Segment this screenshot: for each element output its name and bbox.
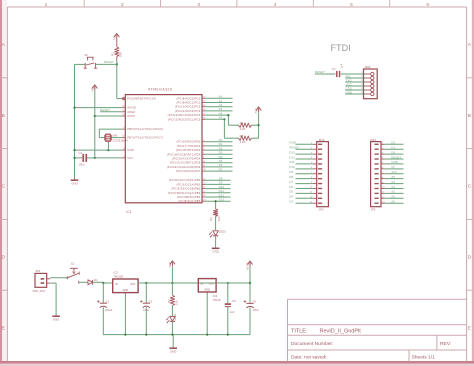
capacitor C2 100n (decoupling) — [73, 151, 94, 166]
JP3 net wires and labels — [385, 141, 404, 204]
capacitor C7 100n (DTR series) — [332, 63, 344, 77]
svg-text:D13: D13 — [219, 198, 225, 202]
svg-text:RESET: RESET — [104, 60, 114, 64]
svg-text:220: 220 — [217, 216, 221, 221]
wire RESET net to IC pin 1 — [116, 61, 123, 99]
svg-text:IN: IN — [200, 282, 203, 286]
svg-text:S1: S1 — [71, 262, 75, 266]
svg-text:+5V: +5V — [112, 35, 116, 40]
LED LED1 (power) — [167, 313, 177, 335]
resistor R4 2.2K (SDA pull-up) — [227, 114, 258, 131]
svg-text:10uF: 10uF — [253, 308, 259, 312]
pushbutton S2 — [75, 53, 117, 68]
switch S1 (power) — [67, 262, 79, 284]
supply +5V arrow (I2C pull-ups) — [254, 107, 261, 114]
svg-text:C: C — [1, 184, 5, 190]
svg-text:78L05Z: 78L05Z — [113, 274, 123, 278]
wire jack pin2 to ground — [50, 283, 56, 316]
svg-text:R1: R1 — [111, 52, 115, 56]
svg-text:AREF: AREF — [127, 110, 135, 114]
wire 3.3V out — [216, 282, 250, 284]
svg-text:(PCI19/OC2B/INT1)PD3: (PCI19/OC2B/INT1)PD3 — [167, 152, 201, 156]
svg-text:Document Number:: Document Number: — [291, 341, 333, 347]
svg-text:ATMEGA328: ATMEGA328 — [148, 88, 172, 92]
svg-text:(PCI21/OC0B/T1)PD5: (PCI21/OC0B/T1)PD5 — [170, 161, 201, 165]
ground symbol GND (power rail) — [169, 348, 177, 353]
svg-text:3V3: 3V3 — [391, 170, 397, 174]
ground symbol GND (button / analog gnd) — [71, 180, 79, 185]
svg-text:LED1: LED1 — [173, 313, 177, 320]
svg-text:IC1: IC1 — [126, 210, 131, 214]
svg-text:D1: D1 — [391, 146, 395, 150]
svg-text:+5V: +5V — [168, 262, 172, 267]
ground symbol GND (power jack) — [52, 316, 60, 321]
svg-text:R2: R2 — [167, 299, 171, 303]
svg-text:RevID_II_GndPlt: RevID_II_GndPlt — [320, 329, 362, 335]
svg-text:6: 6 — [426, 2, 429, 8]
svg-text:FTDI: FTDI — [331, 43, 351, 53]
svg-text:IN: IN — [115, 282, 118, 286]
svg-text:JP3: JP3 — [370, 207, 375, 211]
wire ground rail — [103, 334, 250, 336]
connector JP3 M13 (analog/power header) — [370, 138, 385, 211]
svg-text:(PCI16/RXD)PD0: (PCI16/RXD)PD0 — [177, 140, 201, 144]
connector JP4 power jack — [33, 269, 51, 293]
svg-text:JP2: JP2 — [319, 207, 324, 211]
svg-text:Date: not saved!: Date: not saved! — [291, 355, 327, 361]
svg-text:D9: D9 — [289, 170, 293, 174]
svg-text:10K: 10K — [119, 52, 123, 57]
svg-text:D: D — [1, 255, 5, 261]
IC1 right pins PC0-PC5 with nets A0-A5 — [168, 95, 233, 122]
svg-text:A5: A5 — [391, 175, 395, 179]
voltage regulator IC3 78L33 — [198, 279, 221, 302]
svg-text:D3: D3 — [289, 199, 293, 203]
svg-text:D7: D7 — [289, 180, 293, 184]
svg-text:GND: GND — [212, 250, 218, 254]
ground symbol GND (LED2) — [212, 248, 220, 253]
svg-text:B: B — [2, 113, 5, 119]
FTDI net stub wires RXI TXO VCC CTS GND — [345, 74, 363, 94]
svg-text:RESET: RESET — [289, 146, 299, 150]
svg-text:(PCI18/INT0)PD2: (PCI18/INT0)PD2 — [176, 148, 201, 152]
svg-text:(PCI3/MOSI/OC2A)PB3: (PCI3/MOSI/OC2A)PB3 — [168, 191, 201, 195]
supply +3.3V arrow — [246, 261, 253, 283]
wire IC2 gnd to ground rail — [124, 294, 126, 334]
wire switch to diode D1 — [79, 281, 88, 283]
svg-text:(PCI5/SCK)PB5: (PCI5/SCK)PB5 — [179, 199, 201, 203]
svg-text:A5: A5 — [219, 116, 223, 120]
wire IC3 gnd to ground rail — [206, 294, 208, 335]
svg-text:A0: A0 — [391, 199, 395, 203]
wire rail to ground symbol — [172, 335, 174, 348]
wire button to GND rail — [74, 64, 76, 179]
svg-text:A3: A3 — [391, 185, 395, 189]
svg-text:+3.3V: +3.3V — [246, 262, 250, 270]
svg-text:C5: C5 — [232, 299, 236, 303]
wire GND to IC gnd pin — [73, 149, 122, 151]
wire VCC — [95, 157, 123, 159]
svg-text:RESET: RESET — [391, 155, 401, 159]
svg-text:(PCI22/OC0A/AIN0)PD6: (PCI22/OC0A/AIN0)PD6 — [167, 165, 201, 169]
svg-text:GND: GND — [170, 349, 176, 353]
svg-text:C2: C2 — [78, 151, 82, 155]
svg-text:GND: GND — [289, 141, 297, 145]
wire resistor to LED2 — [215, 216, 217, 230]
svg-text:A2: A2 — [391, 190, 395, 194]
resistor R1 10K — [111, 39, 123, 61]
capacitor C1 100uF (input) — [97, 283, 113, 335]
capacitor C2b 10uF (5V out) — [140, 283, 153, 335]
svg-text:AGND: AGND — [127, 106, 136, 110]
IC1 right pins PD0-PD7 with nets D0-D7 — [167, 138, 233, 173]
supply +5V arrow (AVCC/VCC) — [90, 85, 97, 92]
svg-text:OUT: OUT — [209, 282, 215, 286]
LED LED2 — [210, 229, 227, 237]
svg-text:(PCI8/ADC0)PC0: (PCI8/ADC0)PC0 — [177, 96, 201, 100]
IC1 right pins PB0-PB5 with nets D8-D13 — [168, 177, 231, 204]
svg-text:REV:: REV: — [440, 341, 451, 347]
svg-text:D13: D13 — [289, 150, 295, 154]
svg-text:C: C — [468, 184, 472, 190]
svg-text:4: 4 — [274, 2, 277, 8]
svg-text:CSTCE16M0V: CSTCE16M0V — [112, 140, 128, 143]
resistor R5 2.2K (SCL pull-up) — [223, 118, 258, 144]
svg-text:C7: C7 — [332, 67, 336, 71]
svg-text:AVCC: AVCC — [127, 114, 135, 118]
svg-text:B: B — [468, 113, 471, 119]
svg-text:(PCI23/AIN1)PD7: (PCI23/AIN1)PD7 — [176, 169, 201, 173]
svg-text:JP4: JP4 — [35, 269, 40, 273]
svg-text:D8: D8 — [289, 175, 293, 179]
svg-text:GND: GND — [346, 90, 354, 94]
wire RESET to C7 — [315, 73, 336, 75]
svg-text:VCC: VCC — [127, 156, 133, 160]
svg-text:D12: D12 — [289, 155, 295, 159]
svg-text:LED2: LED2 — [219, 229, 226, 233]
svg-text:1: 1 — [45, 2, 48, 8]
svg-text:A1: A1 — [391, 195, 395, 199]
wire D1 to regulator input (VIN node) — [93, 282, 113, 284]
svg-text:(PCI2/SS/OC1B)PB2: (PCI2/SS/OC1B)PB2 — [172, 187, 201, 191]
svg-text:Sheets 1/1: Sheets 1/1 — [412, 355, 436, 361]
svg-text:GND: GND — [123, 288, 129, 292]
svg-text:2: 2 — [121, 2, 124, 8]
svg-text:(PCI1/OC1A)PB1: (PCI1/OC1A)PB1 — [177, 182, 201, 186]
svg-text:D2: D2 — [391, 141, 395, 145]
wire AGND to gnd column — [73, 107, 122, 109]
svg-text:D1: D1 — [94, 278, 98, 282]
resistor R2 330 (power LED) — [167, 283, 178, 316]
capacitor C5 .1uF — [225, 283, 236, 335]
svg-text:C2: C2 — [149, 299, 153, 303]
svg-text:PC6(/RESET/PCI14): PC6(/RESET/PCI14) — [127, 97, 156, 101]
svg-text:2.2K: 2.2K — [240, 140, 246, 144]
svg-text:5: 5 — [350, 2, 353, 8]
IC1 left pins (stubs, numbers, names) — [122, 97, 163, 160]
svg-text:(PCI4/MISO)PB4: (PCI4/MISO)PB4 — [177, 195, 201, 199]
svg-text:C1: C1 — [106, 299, 110, 303]
svg-text:5V: 5V — [391, 165, 395, 169]
capacitor C6 10uF (3.3V out) — [244, 282, 259, 335]
svg-text:D0: D0 — [391, 150, 395, 154]
svg-text:GND: GND — [204, 288, 210, 292]
svg-text:D4: D4 — [289, 195, 293, 199]
wire +5V to pull-ups — [258, 112, 260, 138]
svg-text:3: 3 — [197, 2, 200, 8]
svg-text:GND: GND — [391, 160, 399, 164]
svg-text:D5: D5 — [289, 190, 293, 194]
resonator Q1 16MHz CSTCE16M — [99, 129, 128, 150]
svg-text:+5V: +5V — [90, 86, 94, 91]
svg-text:R3: R3 — [209, 217, 213, 221]
wire LED2 to ground — [215, 236, 217, 249]
wire +5V rail (IC2 out) — [138, 282, 250, 284]
wire jack pin1 to switch S1 — [50, 277, 67, 279]
voltage regulator IC2 78L05Z — [113, 271, 138, 295]
svg-text:D11: D11 — [289, 160, 295, 164]
svg-text:(PCI9/ADC1)PC1: (PCI9/ADC1)PC1 — [177, 101, 201, 105]
wire AREF — [100, 111, 122, 113]
svg-text:E: E — [2, 325, 5, 331]
svg-text:16M: 16M — [112, 134, 117, 137]
svg-text:78L33: 78L33 — [213, 298, 221, 302]
svg-text:D10: D10 — [289, 165, 295, 169]
svg-text:100uF: 100uF — [105, 308, 113, 312]
diode D1 — [88, 278, 98, 285]
svg-text:A4: A4 — [391, 180, 395, 184]
supply +5V arrow (rail) — [168, 261, 175, 283]
wire C7 to FTDI pin 1 — [341, 73, 364, 75]
svg-text:E: E — [468, 325, 471, 331]
svg-text:2.2K: 2.2K — [240, 127, 246, 131]
svg-text:C6: C6 — [252, 300, 256, 304]
svg-text:+5V: +5V — [254, 108, 258, 113]
IC IC1 ATMEGA328 (microcontroller) — [125, 88, 202, 214]
supply +5V arrow (reset pull-up) — [112, 34, 119, 41]
svg-text:.1uF: .1uF — [340, 63, 344, 69]
svg-text:D: D — [468, 255, 472, 261]
svg-text:GND: GND — [53, 317, 59, 321]
svg-text:(PCI11/ADC3)PC3: (PCI11/ADC3)PC3 — [175, 109, 201, 113]
wire +5V to AVCC and VCC pins — [94, 90, 96, 159]
svg-text:.1uF: .1uF — [229, 310, 235, 314]
svg-text:(PCI10/ADC2)PC2: (PCI10/ADC2)PC2 — [175, 105, 201, 109]
svg-text:D7: D7 — [219, 167, 223, 171]
svg-text:TITLE:: TITLE: — [291, 329, 308, 335]
svg-text:(PCI20/XCK/T0)PD4: (PCI20/XCK/T0)PD4 — [172, 157, 201, 161]
JP2 net wires and labels — [289, 141, 313, 204]
svg-text:PB6(XTAL1/TOSC1/PCI6): PB6(XTAL1/TOSC1/PCI6) — [127, 127, 163, 131]
svg-text:(PCI17/TXD)PD1: (PCI17/TXD)PD1 — [177, 144, 201, 148]
svg-text:(PCI13/ADC5/SCL)PC5: (PCI13/ADC5/SCL)PC5 — [168, 117, 201, 121]
svg-text:100n: 100n — [78, 163, 84, 167]
connector JP2 M13 (digital header) — [310, 138, 329, 211]
svg-text:(PCI12/ADC4/SDA)PC4: (PCI12/ADC4/SDA)PC4 — [168, 113, 201, 117]
svg-text:D6: D6 — [289, 185, 293, 189]
connector JP1 FTDI M06 — [361, 65, 377, 99]
svg-text:330: 330 — [174, 300, 178, 305]
svg-text:PB7(XTAL2/TOSC2/PCI7): PB7(XTAL2/TOSC2/PCI7) — [127, 136, 163, 140]
wire AVCC — [95, 115, 123, 117]
wire D13 to resistor — [215, 200, 217, 209]
resistor R3 220 — [209, 209, 221, 221]
svg-text:S2: S2 — [84, 53, 88, 57]
svg-text:(PCI0/CLKO/ICP1)PB0: (PCI0/CLKO/ICP1)PB0 — [169, 178, 201, 182]
svg-text:GND: GND — [71, 181, 77, 185]
svg-text:PWR_JACK: PWR_JACK — [33, 290, 46, 293]
svg-text:GND: GND — [127, 148, 134, 152]
svg-text:OUT: OUT — [130, 282, 136, 286]
